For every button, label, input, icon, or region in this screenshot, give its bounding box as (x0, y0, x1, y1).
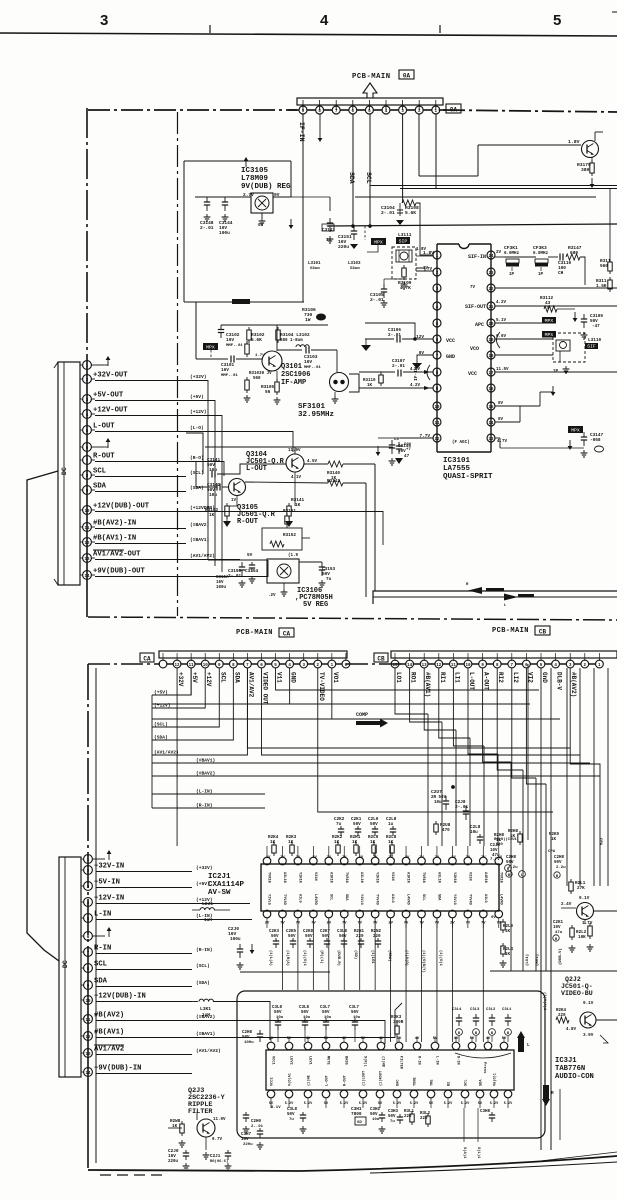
svg-text:12: 12 (436, 664, 442, 668)
svg-text:20: 20 (488, 323, 494, 327)
svg-text:7V: 7V (435, 856, 440, 860)
svg-text:(AV1/AV2): (AV1/AV2) (154, 750, 179, 756)
svg-text:50V: 50V (288, 935, 296, 939)
svg-text:(#BAV2): (#BAV2) (190, 522, 209, 528)
svg-text:Y1VLG: Y1VLG (267, 894, 271, 905)
svg-text:(1)V(O): (1)V(O) (404, 950, 409, 966)
svg-text:23: 23 (488, 272, 494, 276)
svg-text:MPX: MPX (206, 345, 215, 351)
svg-text:SDA: SDA (233, 672, 240, 683)
svg-text:5.2V: 5.2V (444, 1102, 453, 1106)
svg-text:220: 220 (420, 1117, 428, 1121)
svg-text:R2N1: R2N1 (354, 930, 365, 934)
svg-text:10: 10 (434, 406, 440, 410)
svg-text:L3101: L3101 (308, 262, 321, 266)
svg-text:11.5V: 11.5V (496, 368, 509, 372)
svg-text:1P: 1P (509, 273, 515, 277)
svg-text:#B(AV1): #B(AV1) (94, 1029, 124, 1037)
svg-text:R2N2: R2N2 (371, 930, 382, 934)
svg-text:C3H2: C3H2 (370, 1108, 381, 1112)
svg-text:2V: 2V (496, 251, 502, 255)
svg-text:DC: DC (62, 960, 69, 968)
svg-text:R0(06.6): R0(06.6) (210, 1159, 228, 1164)
svg-text:A3L1N: A3L1N (436, 872, 440, 883)
svg-text:+9V(DUB)-OUT: +9V(DUB)-OUT (93, 568, 145, 576)
svg-text:(DUB-R): (DUB-R) (336, 950, 341, 966)
svg-text:16V: 16V (304, 359, 312, 365)
svg-text:(+5V): (+5V) (190, 394, 204, 400)
svg-text:C3L1: C3L1 (502, 1008, 512, 1012)
svg-text:(SDA): (SDA) (387, 950, 392, 961)
svg-text:10u: 10u (353, 1016, 361, 1020)
svg-text:11: 11 (451, 664, 457, 668)
svg-text:+12V: +12V (205, 672, 212, 687)
svg-text:COMP: COMP (356, 712, 368, 718)
svg-text:R3L1: R3L1 (404, 1110, 415, 1114)
svg-text:4V: 4V (269, 1037, 274, 1041)
svg-text:VCC: VCC (468, 371, 477, 377)
svg-text:7V: 7V (280, 856, 285, 860)
svg-text:5V: 5V (361, 1037, 366, 1041)
svg-text:1K: 1K (551, 838, 557, 842)
svg-text:7V: 7V (470, 286, 476, 290)
svg-text:5.6K: 5.6K (405, 210, 416, 216)
svg-text:(+12VDUB): (+12VDUB) (190, 505, 215, 511)
svg-text:10u: 10u (276, 1016, 284, 1020)
svg-text:13: 13 (488, 438, 494, 442)
svg-text:11: 11 (434, 422, 440, 426)
svg-text:SDA: SDA (94, 978, 108, 986)
svg-text:#B(AV2): #B(AV2) (94, 1012, 124, 1020)
svg-text:(R-O): (R-O) (190, 455, 204, 461)
svg-text:L-IN: L-IN (94, 911, 111, 919)
svg-text:5.2V: 5.2V (340, 1102, 349, 1106)
svg-text:2-.01: 2-.01 (381, 210, 395, 216)
svg-text:(1)(O)1: (1)(O)1 (302, 950, 307, 967)
svg-text:C3L7: C3L7 (349, 1006, 360, 1010)
svg-text:SCL: SCL (421, 894, 425, 900)
svg-text:43: 43 (545, 301, 551, 306)
svg-text:+7: +7 (406, 448, 411, 452)
svg-text:MPX: MPX (374, 240, 383, 246)
svg-text:CXA1114P: CXA1114P (208, 881, 245, 889)
svg-text:S(A)1: S(A)1 (462, 1147, 467, 1159)
svg-text:C2K1: C2K1 (553, 921, 564, 925)
svg-text:10u: 10u (324, 1016, 332, 1020)
svg-text:10u: 10u (434, 801, 442, 805)
svg-text:1.7V: 1.7V (255, 354, 265, 358)
svg-text:V31N: V31N (313, 872, 317, 881)
svg-text:(#BAV1): (#BAV1) (196, 1031, 215, 1037)
svg-text:15: 15 (392, 664, 398, 668)
svg-text:(+32V): (+32V) (190, 374, 207, 380)
svg-text:Y1VLG: Y1VLG (452, 894, 456, 905)
svg-text:7V: 7V (296, 856, 301, 860)
svg-text:560: 560 (253, 377, 261, 381)
svg-text:11: 11 (85, 1019, 91, 1023)
svg-text:B2: B2 (448, 1082, 452, 1086)
svg-text:R2H8: R2H8 (508, 830, 519, 834)
svg-text:7V: 7V (327, 856, 332, 860)
svg-text:(F AGC): (F AGC) (452, 440, 470, 445)
svg-text:IF-IN: IF-IN (413, 367, 419, 381)
svg-text:5.2V: 5.2V (461, 1102, 470, 1106)
svg-text:5V REG: 5V REG (303, 601, 328, 609)
svg-text:TONE: TONE (414, 1077, 418, 1086)
svg-text:7V: 7V (466, 922, 471, 926)
svg-text:1K: 1K (505, 930, 511, 934)
svg-text:14: 14 (407, 664, 413, 668)
svg-text:R3L2: R3L2 (420, 1112, 431, 1116)
svg-text:50V: 50V (287, 1113, 295, 1117)
svg-text:L-OUT: L-OUT (93, 423, 115, 431)
svg-text:1W: 1W (305, 317, 311, 323)
svg-text:Y1VLG: Y1VLG (359, 894, 363, 905)
svg-text:(SCL): (SCL) (196, 963, 210, 969)
svg-text:0A: 0A (450, 107, 458, 114)
svg-text:68um: 68um (310, 267, 320, 271)
svg-text:IC3101: IC3101 (443, 457, 471, 465)
svg-text:9.1V: 9.1V (579, 896, 590, 901)
svg-text:A1R1N: A1R1N (483, 872, 487, 883)
svg-text:14: 14 (85, 1072, 91, 1076)
svg-text:(#BAV1): (#BAV1) (190, 537, 209, 543)
svg-text:16V: 16V (241, 1138, 249, 1142)
svg-text:5.2V: 5.2V (410, 1102, 419, 1106)
svg-text:2SC1906: 2SC1906 (281, 371, 310, 379)
svg-text:13: 13 (85, 1053, 91, 1057)
svg-text:L: L (521, 874, 523, 878)
svg-text:AV1/AV2: AV1/AV2 (247, 672, 254, 698)
svg-text:560: 560 (600, 264, 608, 269)
svg-text:18: 18 (488, 355, 494, 359)
svg-text:(1.9: (1.9 (288, 553, 299, 558)
svg-text:-47: -47 (592, 324, 600, 329)
svg-text:4V: 4V (454, 1037, 459, 1041)
svg-text:3: 3 (100, 12, 108, 29)
svg-text:.2V: .2V (356, 856, 364, 860)
svg-text:IF-AMP: IF-AMP (281, 379, 306, 387)
svg-text:SIF-OUT: SIF-OUT (465, 304, 486, 310)
svg-text:1uH: 1uH (204, 918, 212, 923)
svg-text:LO1: LO1 (395, 672, 402, 683)
svg-text:RI2: RI2 (497, 672, 504, 683)
svg-text:-068: -068 (590, 438, 601, 443)
svg-text:50V: 50V (271, 935, 279, 939)
svg-text:APC: APC (475, 322, 484, 328)
svg-text:MPX: MPX (545, 318, 554, 324)
svg-text:L4VRO: L4VRO (313, 894, 317, 906)
svg-text:10: 10 (84, 510, 90, 514)
svg-text:IC3J1: IC3J1 (555, 1057, 577, 1065)
svg-text:7u: 7u (390, 1120, 395, 1124)
svg-text:A1R1N: A1R1N (406, 872, 410, 883)
svg-text:C2K3: C2K3 (269, 930, 280, 934)
svg-text:(L01): (L01) (525, 954, 530, 966)
svg-text:4V: 4V (415, 1037, 420, 1041)
svg-text:(SD): (SD) (353, 950, 358, 959)
svg-text:C2J5: C2J5 (490, 844, 501, 848)
svg-text:470: 470 (442, 828, 450, 833)
svg-text:5V: 5V (247, 553, 253, 558)
svg-text:R2L0: R2L0 (503, 925, 514, 929)
svg-text:C315A: C315A (216, 576, 229, 580)
svg-text:10u: 10u (209, 468, 217, 473)
svg-text:100u: 100u (219, 230, 230, 236)
svg-text:SIF: SIF (587, 344, 596, 350)
svg-text:1uH: 1uH (202, 1013, 210, 1018)
svg-text:RI1: RI1 (439, 672, 446, 683)
svg-text:22: 22 (488, 288, 494, 292)
svg-text:9V(DUB) REG: 9V(DUB) REG (241, 183, 291, 191)
svg-text:MMF-.01: MMF-.01 (221, 374, 238, 378)
svg-text:SCL: SCL (328, 894, 332, 900)
svg-text:2-.01: 2-.01 (388, 333, 401, 338)
svg-text:16V: 16V (216, 581, 224, 585)
svg-text:7.7V: 7.7V (490, 858, 500, 862)
svg-text:47u: 47u (555, 931, 563, 935)
svg-text:SIF-IN: SIF-IN (468, 254, 486, 260)
svg-text:LEV1: LEV1 (308, 1056, 312, 1065)
svg-text:(L-O): (L-O) (190, 425, 204, 431)
svg-text:0V: 0V (498, 402, 504, 406)
svg-text:L4VRO: L4VRO (498, 894, 502, 906)
svg-text:LI2: LI2 (512, 672, 519, 683)
svg-text:C2H8: C2H8 (242, 1031, 253, 1035)
svg-text:7V: 7V (466, 856, 471, 860)
svg-text:13: 13 (84, 558, 90, 562)
svg-text:C3L7: C3L7 (320, 1006, 331, 1010)
svg-text:(1)R(A): (1)R(A) (285, 950, 290, 966)
svg-text:BASS: BASS (344, 1056, 348, 1065)
svg-text:100u: 100u (244, 1041, 254, 1045)
svg-text:SDA: SDA (480, 1079, 484, 1086)
svg-text:TVR1N: TVR1N (267, 872, 271, 883)
svg-text:FILTER: FILTER (399, 1056, 403, 1070)
svg-text:1.7V: 1.7V (582, 921, 593, 926)
svg-text:+5V: +5V (191, 672, 198, 683)
svg-text:CH: CH (558, 271, 564, 276)
svg-text:VCC2: VCC2 (271, 1077, 275, 1086)
svg-text:2-.01: 2-.01 (200, 225, 214, 231)
svg-text:4.2V: 4.2V (496, 301, 507, 305)
svg-text:2.4V: 2.4V (561, 902, 572, 907)
svg-text:GnD: GnD (541, 672, 548, 683)
svg-text:A-OUT: A-OUT (483, 672, 490, 690)
svg-text:C3: C3 (394, 438, 399, 442)
svg-text:A1LG: A1LG (390, 894, 394, 903)
svg-text:4: 4 (320, 12, 329, 29)
svg-text:+5V-IN: +5V-IN (94, 879, 120, 887)
svg-text:2-.01: 2-.01 (455, 805, 469, 810)
svg-text:TVR1N: TVR1N (498, 872, 502, 883)
svg-text:50V: 50V (554, 861, 562, 865)
svg-text:(1)L(A): (1)L(A) (268, 950, 273, 966)
svg-text:VO1: VO1 (332, 672, 339, 683)
svg-text:TVR1N: TVR1N (421, 872, 425, 883)
svg-text:AV-SW: AV-SW (208, 889, 231, 897)
svg-text:MUTE: MUTE (326, 1056, 330, 1065)
svg-text:IC3105: IC3105 (241, 167, 269, 175)
svg-text:(AV1/AV2): (AV1/AV2) (196, 1048, 221, 1054)
svg-text:A1LG: A1LG (483, 894, 487, 903)
svg-text:4V: 4V (342, 1037, 347, 1041)
svg-text:TYV4O: TYV4O (467, 894, 471, 906)
svg-text:AV1/AV2-OUT: AV1/AV2-OUT (93, 551, 141, 559)
svg-text:CPA: CPA (598, 838, 602, 846)
svg-text:(+32V): (+32V) (196, 865, 213, 871)
svg-text:1.5K: 1.5K (596, 284, 607, 289)
svg-text:(SDA): (SDA) (196, 980, 210, 986)
svg-text:12: 12 (84, 542, 90, 546)
svg-text:#B(AV1)-IN: #B(AV1)-IN (93, 535, 136, 543)
svg-text:16: 16 (488, 388, 494, 392)
svg-text:R-OUT: R-OUT (237, 518, 258, 526)
svg-text:C2J1: C2J1 (210, 1154, 221, 1159)
svg-text:1.8V: 1.8V (568, 139, 580, 145)
svg-text:S(R)L: S(R)L (363, 1056, 368, 1067)
svg-text:12: 12 (85, 1036, 91, 1040)
svg-text:PCB-MAIN: PCB-MAIN (492, 627, 529, 635)
svg-text:C3H7: C3H7 (241, 1133, 252, 1137)
svg-text:7V: 7V (423, 267, 429, 271)
svg-text:#B(AV2)-IN: #B(AV2)-IN (93, 520, 136, 528)
svg-text:+12V(DUB)-OUT: +12V(DUB)-OUT (93, 503, 150, 511)
svg-text:2.7V: 2.7V (243, 192, 254, 198)
svg-text:C3L8: C3L8 (337, 930, 348, 934)
svg-text:CPA: CPA (548, 850, 556, 854)
svg-text:+5V-OUT: +5V-OUT (93, 392, 124, 400)
svg-text:5V: 5V (433, 1037, 438, 1041)
svg-text:A1LG: A1LG (297, 894, 301, 903)
svg-text:SCL: SCL (365, 172, 372, 184)
svg-text:IC2J1: IC2J1 (208, 873, 231, 881)
svg-text:1K: 1K (352, 840, 358, 845)
svg-text:50V: 50V (353, 822, 361, 827)
svg-text:1K: 1K (295, 503, 301, 508)
svg-text:SCL: SCL (93, 468, 106, 476)
svg-text:TYV4O: TYV4O (282, 894, 286, 906)
svg-text:VCC1: VCC1 (271, 1056, 275, 1065)
svg-text:50V: 50V (370, 822, 378, 827)
svg-text:17: 17 (488, 372, 494, 376)
svg-text:(SDA): (SDA) (154, 735, 168, 741)
svg-text:+12V(DUB)-IN: +12V(DUB)-IN (94, 993, 146, 1001)
svg-text:IF-IN: IF-IN (298, 122, 305, 142)
svg-text:GND: GND (290, 672, 297, 683)
svg-text:10K: 10K (578, 935, 586, 940)
svg-text:R3104 L3102: R3104 L3102 (280, 332, 310, 338)
svg-text:VIDEO OUT: VIDEO OUT (261, 672, 268, 705)
svg-text:14: 14 (488, 422, 494, 426)
svg-text:220u: 220u (338, 244, 349, 250)
svg-text:R3110: R3110 (363, 379, 376, 383)
svg-text:2R 50V: 2R 50V (431, 796, 447, 800)
svg-text:+12V-OUT: +12V-OUT (93, 407, 128, 415)
svg-text:11: 11 (84, 527, 90, 531)
svg-text:Press: Press (482, 1062, 487, 1074)
svg-text:10u: 10u (372, 1118, 380, 1122)
svg-text:LA7555: LA7555 (443, 465, 471, 473)
svg-text:12: 12 (175, 664, 181, 668)
svg-text:MMF-.01: MMF-.01 (226, 344, 243, 348)
svg-text:2-.01: 2-.01 (392, 364, 405, 369)
svg-text:SDA: SDA (344, 894, 348, 901)
svg-text:C2H8: C2H8 (506, 856, 517, 860)
svg-text:0A: 0A (403, 73, 411, 80)
svg-text:CF3K3: CF3K3 (533, 245, 547, 251)
svg-text:1u: 1u (326, 238, 332, 243)
svg-text:50V: 50V (242, 1036, 250, 1040)
svg-text:50V: 50V (339, 935, 347, 939)
svg-text:4.8V: 4.8V (566, 1028, 577, 1032)
svg-text:4.7K: 4.7K (400, 285, 411, 291)
svg-text:SDA: SDA (436, 894, 440, 901)
svg-text:(1)HB: (1)HB (381, 1056, 386, 1068)
svg-text:3.9V: 3.9V (583, 1033, 594, 1038)
svg-text:5.2V: 5.2V (359, 1102, 368, 1106)
svg-text:1K: 1K (270, 840, 276, 845)
svg-text:9V: 9V (274, 192, 280, 198)
svg-text:5V: 5V (470, 1037, 475, 1041)
svg-text:7u: 7u (289, 1118, 294, 1122)
svg-text:TRE: TRE (431, 1079, 435, 1086)
svg-text:16V: 16V (168, 1154, 176, 1159)
svg-text:#B(AV1): #B(AV1) (424, 672, 431, 697)
svg-text:Y2H1N: Y2H1N (375, 872, 379, 883)
svg-text:CA: CA (283, 631, 291, 638)
svg-text:Y2H1N: Y2H1N (297, 872, 301, 883)
svg-text:5.2V: 5.2V (304, 1102, 313, 1106)
svg-text:2-.01: 2-.01 (251, 1125, 264, 1129)
svg-text:380: 380 (581, 167, 590, 173)
svg-text:+32V: +32V (177, 672, 184, 687)
svg-text:56: 56 (265, 390, 271, 395)
svg-text:L3110: L3110 (588, 338, 602, 343)
svg-text:(+5V): (+5V) (154, 690, 168, 696)
svg-text:0V: 0V (258, 222, 264, 228)
svg-text:V11: V11 (276, 672, 283, 683)
svg-text:50V: 50V (301, 1011, 309, 1015)
svg-text:(DUB-V): (DUB-V) (558, 948, 563, 965)
svg-text:R2H8: R2H8 (494, 834, 505, 838)
svg-text:SCL: SCL (465, 1080, 469, 1086)
svg-text:1K: 1K (370, 840, 376, 845)
svg-text:7V: 7V (388, 856, 393, 860)
svg-text:5V: 5V (502, 1037, 507, 1041)
svg-text:6D: 6D (357, 1121, 362, 1125)
svg-text:7V: 7V (481, 856, 486, 860)
svg-text:0V: 0V (498, 418, 504, 422)
svg-text:1P: 1P (538, 273, 544, 277)
svg-text:220u: 220u (168, 1160, 179, 1164)
svg-text:#B(AV2): #B(AV2) (570, 672, 577, 697)
svg-text:C2H0: C2H0 (251, 1120, 262, 1124)
svg-text:4V: 4V (379, 1037, 384, 1041)
svg-text:CB: CB (377, 656, 385, 663)
svg-text:2-.01: 2-.01 (370, 297, 384, 303)
svg-text:PCB-MAIN: PCB-MAIN (352, 73, 391, 81)
svg-text:DC: DC (61, 467, 68, 475)
svg-text:4.2V: 4.2V (410, 384, 421, 388)
svg-text:QUASI-SPRIT: QUASI-SPRIT (443, 473, 493, 481)
svg-text:(SCL): (SCL) (190, 470, 204, 476)
svg-text:5.2V: 5.2V (490, 1102, 499, 1106)
svg-text:27K: 27K (577, 886, 585, 891)
svg-text:R-OUT: R-OUT (93, 453, 115, 461)
svg-text:10u: 10u (209, 493, 217, 498)
svg-text:SDA: SDA (93, 483, 107, 491)
